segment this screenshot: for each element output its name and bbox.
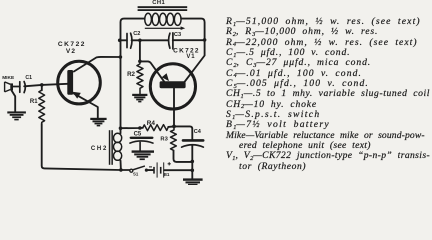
node C3 x right rail: [203, 38, 207, 42]
inductor CH2 core bars: [109, 130, 111, 165]
inductor CH1 core bars: [138, 6, 188, 8]
ground (main, battery/C4 node): [183, 178, 203, 185]
wire R3 bottom to ground node: [174, 150, 193, 162]
wire C2 left lead: [120, 39, 127, 41]
svg-text:V2: V2: [66, 48, 76, 55]
ground (R2): [132, 94, 147, 103]
wire top rail left + left supply rail: [121, 19, 145, 134]
wire mike ground lead: [12, 90, 16, 111]
capacitor C5: [131, 137, 153, 139]
parts list text column: [226, 17, 432, 172]
svg-text:MIKE: MIKE: [2, 75, 15, 81]
wire R4 row: rail to C5 node to R4: [121, 127, 143, 129]
capacitor C2: [127, 33, 132, 48]
inductor CH1 variable arrow: [145, 28, 181, 29]
capacitor C4: [183, 139, 203, 142]
node rail x V2 collector: [119, 55, 123, 59]
svg-text:R1: R1: [30, 99, 38, 105]
ground (mike): [7, 111, 26, 120]
ground (C5): [132, 150, 154, 160]
ground (V2 emitter): [90, 118, 106, 127]
wire battery to ground node: [164, 169, 192, 171]
wire V2 emitter to ground: [74, 94, 98, 118]
svg-text:CH2: CH2: [91, 146, 108, 152]
wire C1 to V2 base: [24, 84, 67, 87]
wire R4 to base junction: [168, 125, 174, 128]
battery polarity marks: [149, 162, 171, 167]
wire node A to V1 emitter: [140, 61, 164, 81]
wire R1 top lead: [41, 85, 43, 90]
svg-text:V1: V1: [186, 54, 195, 60]
switch S1: [130, 169, 133, 172]
svg-text:R3: R3: [160, 136, 168, 142]
svg-text:CH1: CH1: [152, 0, 165, 6]
wire top rail right + right rail down to V1 collector: [181, 19, 204, 82]
wire V1 base lead: [173, 88, 175, 126]
svg-text:CK722: CK722: [58, 41, 86, 48]
svg-text:C4: C4: [194, 129, 202, 135]
svg-text:C2: C2: [133, 31, 140, 37]
wire switch to battery: [148, 169, 153, 171]
wire mike to C1: [11, 86, 19, 88]
node battery x ground: [191, 169, 195, 173]
resistor R1: [39, 90, 45, 124]
inductor CH1 coil: [145, 13, 181, 25]
mike symbol: [5, 82, 13, 92]
node A (R2/emitter/tap): [138, 60, 142, 64]
svg-text:C5: C5: [134, 132, 142, 138]
switch S1 right terminal dot: [145, 169, 148, 172]
svg-text:C3: C3: [174, 32, 181, 38]
svg-text:R2: R2: [127, 71, 135, 78]
capacitor C1: [20, 82, 26, 93]
wire C2-C3 middle segment: [132, 39, 169, 41]
inductor CH2 coil: [114, 133, 122, 160]
wire base junction to C4: [174, 126, 192, 139]
node CH2 x bottom rail: [119, 168, 123, 172]
transistor V2: [58, 61, 101, 104]
capacitor C3: [169, 33, 173, 49]
node C1/R1/base: [40, 83, 44, 87]
transistor V1: [150, 64, 195, 109]
node tank tap: [138, 39, 142, 43]
node V1 base junction: [172, 125, 176, 129]
wire CH2 bottom lead: [120, 161, 122, 170]
svg-text:C1: C1: [25, 75, 32, 81]
svg-text:S1: S1: [133, 172, 139, 177]
wire C4 bottom lead to ground node: [191, 146, 193, 179]
resistor R3: [171, 126, 177, 150]
wire V2 collector to rail: [74, 57, 120, 72]
node rail x R4 row: [119, 126, 123, 130]
battery B1: [153, 162, 164, 177]
svg-text:B1: B1: [164, 172, 170, 177]
node C5 tap: [138, 126, 142, 130]
wire C3 right lead: [173, 39, 205, 41]
resistor R2: [137, 61, 143, 93]
node C4/R3: [191, 160, 195, 164]
resistor R4: [143, 125, 169, 131]
wire tank tap drop to node A: [139, 40, 141, 61]
svg-text:R4: R4: [147, 120, 156, 127]
node rail x C2: [118, 39, 122, 43]
wire bottom rail from R1 to switch: [42, 124, 130, 170]
